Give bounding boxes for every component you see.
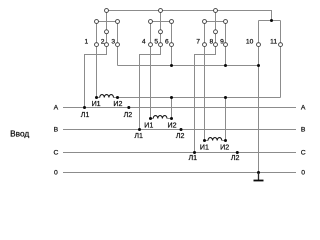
node: junction secondary common and TA3 I2 [224,96,227,99]
terminal 7 [203,43,207,47]
wire: vertical bus jack to terminal 5 [160,11,162,45]
jack: jumper contact above terminal 7 [203,20,207,24]
svg-text:C: C [301,150,306,157]
terminal 11 [279,43,283,47]
wire: top bus from terminal 2 jack to 10/11 header [107,11,272,21]
wire: TA3 secondary lead I2 [222,140,226,142]
node: neutral tap junction [257,171,260,174]
svg-text:4: 4 [142,39,146,46]
wire: terminal 4 to I1 of TA2 [150,45,152,119]
ground: earth stub [258,173,260,181]
wire: terminal 3 drop to common return [117,45,119,66]
node: junction secondary common and TA2 I2 [170,96,173,99]
terminal 5 [159,43,163,47]
wire: header joining terminals 10 and 11 [259,20,281,22]
node: L2 of TA1 on phase A [127,106,130,109]
svg-text:A: A [301,105,306,112]
svg-text:2: 2 [101,39,105,46]
svg-text:A: A [54,105,59,112]
jack: bus tap above terminal 8 [214,9,218,13]
jack: mid contact above terminal 2 [105,30,109,34]
node: junction of bus and 10/11 header [270,19,273,22]
svg-text:И1: И1 [92,100,101,108]
jack: jumper contact above terminal 3 [116,20,120,24]
terminal 10 [257,43,261,47]
terminal 3 [116,43,120,47]
node: junction common return and terminal 10 column [257,64,260,67]
svg-text:Л1: Л1 [81,111,90,119]
jack: mid contact above terminal 5 [159,30,163,34]
terminal 8 [214,43,218,47]
terminal 2 [105,43,109,47]
terminal 6 [170,43,174,47]
wire: vertical terminal 7 to jumper jack [204,22,206,45]
wire: vertical terminal 9 to jumper jack [225,22,227,45]
wire: common return net terminals 3-6-9-10 [118,65,259,67]
node: I2 of TA3 [224,139,227,142]
wire: terminal 2 voltage tap to phase A at L1 [85,45,107,108]
jack: bus tap above terminal 2 [105,9,109,13]
node: I2 of TA2 [170,117,173,120]
wire: phase line C [63,152,296,154]
wire: vertical terminal 3 to jumper jack [117,22,119,45]
svg-text:6: 6 [165,39,169,46]
svg-text:10: 10 [246,39,254,46]
svg-text:C: C [53,150,58,157]
svg-text:5: 5 [154,39,158,46]
node: junction common return and terminal 6 [170,64,173,67]
wire: vertical bus jack to terminal 2 [106,11,108,45]
svg-text:7: 7 [196,39,200,46]
svg-text:11: 11 [270,39,277,46]
node: L2 of TA2 on phase B [180,128,183,131]
svg-text:Л2: Л2 [124,111,133,119]
svg-text:0: 0 [301,170,305,177]
jack: jumper contact above terminal 4 [149,20,153,24]
winding: TA1 secondary coil [100,95,114,98]
node: junction common return and terminal 9 [224,64,227,67]
svg-text:И2: И2 [167,122,176,130]
node: L1 of TA2 on phase B [138,128,141,131]
svg-text:B: B [54,127,59,134]
svg-text:9: 9 [220,39,224,46]
jack: jumper contact above terminal 9 [224,20,228,24]
svg-text:B: B [301,127,306,134]
wire: terminal 1 to I1 of TA1 [96,45,98,98]
node: I2 of TA1 [116,96,119,99]
winding: TA2 secondary coil [153,116,167,119]
svg-text:Л1: Л1 [134,132,143,140]
wire: jumper link above terminals 1-3 [97,21,118,23]
jack: jumper contact above terminal 6 [170,20,174,24]
wire: terminal 6 drop to common return [171,45,173,66]
wire: neutral line 0 [63,172,296,174]
wire: phase line A [63,107,296,109]
wire: phase line B [63,129,296,131]
svg-text:8: 8 [210,39,214,46]
svg-text:3: 3 [111,39,115,46]
wire: vertical bus jack to terminal 8 [215,11,217,45]
winding: TA3 secondary coil [208,138,222,141]
node: I1 of TA2 [149,117,152,120]
svg-text:И1: И1 [200,144,209,152]
node: I1 of TA1 [95,96,98,99]
jack: mid contact above terminal 8 [214,30,218,34]
wire: I2 of TA3 up to secondary common [225,98,227,141]
svg-text:Л2: Л2 [176,132,185,140]
terminal 1 [95,43,99,47]
node: L1 of TA1 on phase A [83,106,86,109]
svg-text:И2: И2 [113,100,122,108]
wire: TA1 secondary lead I1 [97,97,100,99]
wire: terminal 9 drop to common return [225,45,227,66]
wire: TA3 secondary lead I1 [205,140,209,142]
wire: jumper link above terminals 7-9 [205,21,226,23]
node: I1 of TA3 [203,139,206,142]
wire: terminal 10 column down to neutral line [258,21,260,173]
wire: vertical terminal 6 to jumper jack [171,22,173,45]
terminal 9 [224,43,228,47]
wire: vertical terminal 4 to jumper jack [150,22,152,45]
svg-text:Л2: Л2 [231,154,240,162]
wire: vertical terminal 1 to jumper jack [96,22,98,45]
terminal 4 [149,43,153,47]
wire: TA2 secondary lead I2 [167,118,172,120]
svg-text:0: 0 [54,170,58,177]
wire: secondary common I2 bus to terminal 11 [114,97,281,99]
svg-text:Ввод: Ввод [10,129,29,139]
svg-text:1: 1 [85,39,89,46]
node: L2 of TA3 on phase C [236,151,239,154]
wire: I2 of TA2 up to secondary common [171,98,173,119]
wire: TA2 secondary lead I1 [151,118,154,120]
svg-text:Л1: Л1 [188,154,197,162]
node: L1 of TA3 on phase C [193,151,196,154]
wire: terminal 11 column down to secondary common [280,21,282,98]
svg-text:И2: И2 [220,144,229,152]
ground: earth bar [254,180,264,182]
jack: bus tap above terminal 5 [159,9,163,13]
wire: jumper link above terminals 4-6 [151,21,172,23]
wire: terminal 5 voltage tap to phase B at L1 [140,45,161,130]
wire: terminal 7 to I1 of TA3 [204,45,206,141]
svg-text:И1: И1 [144,122,153,130]
jack: jumper contact above terminal 1 [95,20,99,24]
wire: terminal 8 voltage tap to phase C at L1 [195,45,216,153]
